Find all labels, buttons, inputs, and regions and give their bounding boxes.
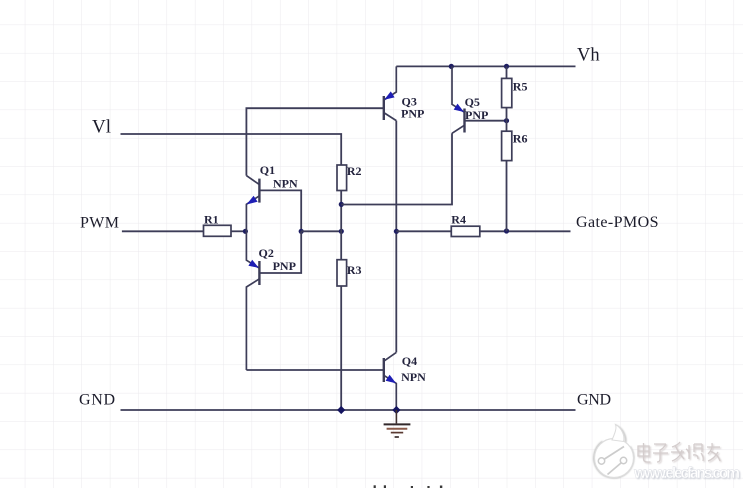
bottom cut-off caption text tops (374, 485, 443, 488)
node junction R6 bottom (504, 228, 509, 233)
svg-text:Q1: Q1 (260, 163, 275, 177)
resistor R6 (502, 131, 512, 160)
node junction GND R3 (diamond) (337, 406, 345, 414)
svg-text:NPN: NPN (401, 370, 426, 384)
wire Q1 collector to Q3 base (246, 108, 383, 175)
wire GND rail (121, 409, 576, 411)
resistor R2 (337, 165, 347, 191)
svg-text:R4: R4 (451, 213, 466, 227)
svg-text:Q2: Q2 (259, 246, 274, 260)
svg-text:www.elecfans.com: www.elecfans.com (633, 465, 740, 482)
svg-text:PWM: PWM (80, 215, 119, 232)
wire Vh top rail (396, 65, 575, 67)
node junction R2/R3 column (339, 229, 344, 234)
node junction Q5 base / R5 R6 (504, 118, 509, 123)
node junction R2 bottom (339, 202, 344, 207)
transistor Q3 PNP (384, 66, 397, 120)
svg-text:PNP: PNP (465, 108, 488, 122)
node B junction (299, 229, 304, 234)
svg-text:R1: R1 (204, 212, 219, 226)
resistor R4 (451, 226, 480, 236)
ground symbol (384, 424, 411, 437)
node A junction (243, 229, 248, 234)
resistor R3 (337, 260, 347, 286)
transistor Q4 NPN (384, 352, 397, 410)
wire Q2 collector to Q4 base (246, 369, 383, 371)
node junction GND Q4 emitter (diamond) (392, 406, 400, 414)
wire R4 to Gate-PMOS (480, 230, 571, 232)
svg-text:R2: R2 (347, 164, 362, 178)
wire Vl rail (121, 134, 342, 165)
resistor R1 (204, 225, 232, 236)
svg-text:GND: GND (577, 392, 611, 409)
svg-text:Vl: Vl (92, 117, 111, 138)
node junction top rail / Q5 emitter (449, 64, 454, 69)
svg-text:Q4: Q4 (402, 354, 417, 368)
wire node C to R4 (396, 230, 451, 232)
svg-text:Q5: Q5 (465, 95, 480, 109)
svg-text:PNP: PNP (273, 259, 296, 273)
wire node B to R2/R3 node (301, 230, 341, 232)
wire ground stub (395, 410, 397, 423)
svg-text:PNP: PNP (401, 107, 424, 121)
node junction top rail / R5 (504, 64, 509, 69)
svg-text:Gate-PMOS: Gate-PMOS (576, 214, 659, 231)
svg-text:R5: R5 (513, 80, 528, 94)
transistor Q5 PNP (452, 66, 507, 133)
resistor R5 (502, 78, 512, 107)
wire R3 bottom to GND rail (340, 286, 342, 410)
wire top rail to R5 (506, 66, 508, 78)
wire R2 bottom to R3 top (340, 191, 342, 260)
svg-text:Vh: Vh (577, 46, 600, 66)
transistor Q2 PNP (246, 231, 301, 370)
svg-text:R3: R3 (347, 263, 362, 277)
node C junction (394, 229, 399, 234)
svg-text:R6: R6 (513, 132, 528, 146)
wire Q3 collector rail down to Q4 (395, 121, 397, 353)
watermark logo and text (594, 425, 633, 478)
wire R1 to node A (231, 230, 245, 232)
watermark Chinese characters (faux glyph strokes) (638, 442, 721, 463)
svg-text:NPN: NPN (273, 177, 298, 191)
wire R5 to R6 (506, 108, 508, 132)
watermark url text (633, 465, 741, 483)
wire R6 bottom to Gate row (506, 161, 508, 232)
wire PWM lead (122, 230, 203, 232)
wire R2 node to Q5 collector (341, 133, 452, 204)
svg-text:GND: GND (79, 392, 115, 409)
transistor Q1 NPN (246, 176, 301, 232)
